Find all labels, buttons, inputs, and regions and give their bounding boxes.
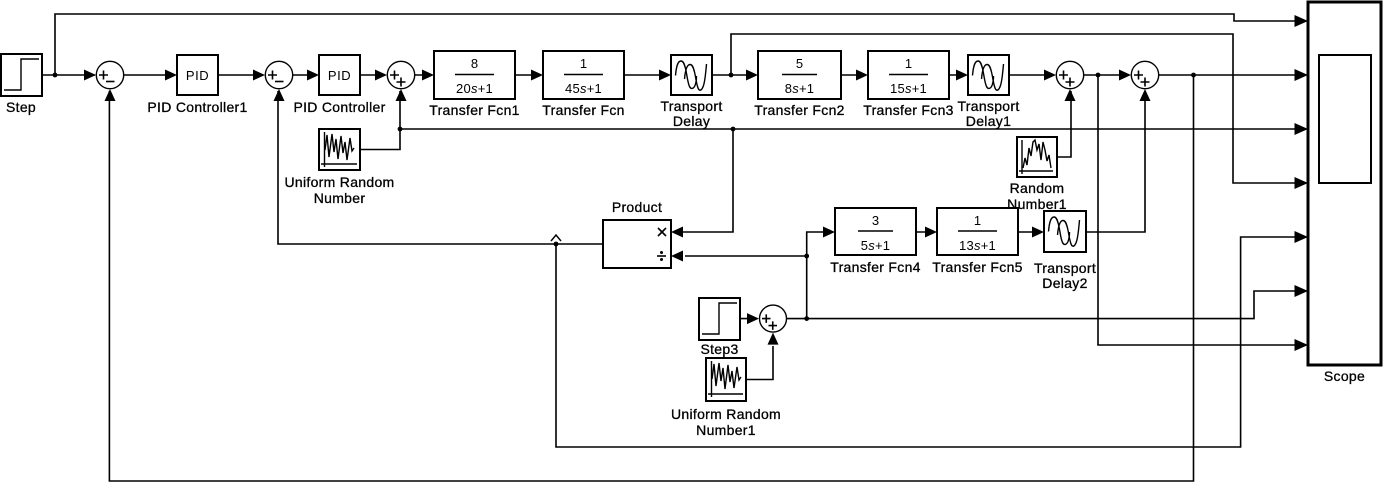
svg-text:Random: Random	[1010, 180, 1065, 196]
arrowhead into Sum1	[84, 70, 96, 81]
node: junction on Sum7 output	[804, 316, 809, 321]
arrowhead into Transport Delay1	[956, 70, 968, 81]
sign + of S1	[99, 71, 108, 80]
marker: chevron above junction	[551, 235, 561, 241]
svg-text:1: 1	[580, 56, 587, 71]
block: PID Controller	[319, 55, 360, 95]
arrowhead into Transfer Fcn2	[746, 70, 758, 81]
block: Uniform Random Number	[319, 129, 360, 170]
svg-text:Transfer Fcn: Transfer Fcn	[542, 102, 624, 118]
arrowhead into Transfer Fcn	[531, 70, 543, 81]
arrowhead into Product X input (pointing left)	[671, 227, 683, 238]
icon: step curve of Step3	[702, 303, 737, 334]
wire: Transfer Fcn1 to Transfer Fcn	[515, 74, 541, 76]
arrowhead into Sum2	[253, 70, 265, 81]
sum S7	[760, 305, 787, 332]
svg-text:3: 3	[872, 213, 879, 228]
arrowhead into Sum7 bottom (from Uniform Random Number1)	[768, 333, 779, 345]
svg-text:45s+1: 45s+1	[565, 81, 602, 96]
arrowhead into Sum6	[1119, 70, 1131, 81]
node: junction on URN line above Product	[731, 127, 736, 132]
svg-text:1: 1	[974, 213, 981, 228]
sign + left of S5	[1059, 71, 1068, 80]
block: Transport Delay2	[1044, 211, 1086, 252]
icon: scope screen	[1319, 55, 1371, 183]
sign + bottom of S6	[1141, 78, 1150, 87]
sign + bottom of S3	[397, 78, 406, 87]
arrowhead into Transfer Fcn4	[823, 227, 835, 238]
arrowhead into Transfer Fcn5	[925, 227, 937, 238]
block: Random Number1	[1017, 137, 1057, 177]
wire: Transport Delay1 to Sum5	[1009, 74, 1054, 76]
svg-text:Transfer Fcn4: Transfer Fcn4	[830, 259, 921, 275]
arrowhead into Transport Delay	[659, 70, 671, 81]
svg-text:PID Controller: PID Controller	[293, 99, 385, 115]
arrowhead into Transfer Fcn3	[856, 70, 868, 81]
svg-text:Transfer Fcn3: Transfer Fcn3	[863, 102, 954, 118]
sign - of S1	[106, 81, 115, 83]
arrowhead into Scope input 5	[1295, 231, 1309, 243]
node: junction on Transport Delay output	[729, 73, 734, 78]
node: junction after Sum5	[1096, 73, 1101, 78]
sign + bottom of S5	[1066, 78, 1075, 87]
svg-text:8s+1: 8s+1	[785, 81, 815, 96]
wire: URN line branch down to Product X input	[673, 129, 733, 232]
sum S3	[387, 61, 414, 88]
arrowhead into Sum5	[1044, 70, 1056, 81]
wire: Sum7 branch up to Transfer Fcn4	[807, 232, 833, 319]
wire: Step signal up and across top to Scope input 1	[55, 14, 1306, 75]
svg-text:Uniform Random: Uniform Random	[284, 174, 394, 190]
svg-text:1: 1	[905, 56, 912, 71]
arrowhead into Sum6 bottom (from Transport Delay2)	[1140, 89, 1151, 101]
wire: URN long line to Scope input 3	[400, 128, 1306, 130]
wire: Uniform Random Number output up to Sum3	[360, 91, 400, 150]
wire: Sum1 to PID Controller1	[124, 74, 175, 76]
svg-text:Delay1: Delay1	[966, 113, 1011, 129]
node: junction on Product output	[554, 242, 559, 247]
block: Uniform Random Number1	[706, 358, 746, 401]
sum S1	[96, 61, 123, 88]
svg-text:Transfer Fcn1: Transfer Fcn1	[429, 102, 520, 118]
block: Transfer Fcn	[543, 51, 624, 99]
node: junction after Sum6	[1191, 73, 1196, 78]
svg-text:Transport: Transport	[1034, 260, 1096, 276]
wire: Transport Delay branch up/right/down to Scope input 4	[731, 34, 1306, 183]
wire: Sum5 to Sum6	[1084, 74, 1129, 76]
arrowhead into PID Controller1	[165, 70, 177, 81]
arrowhead into Scope input 2	[1295, 69, 1309, 81]
block: Transfer Fcn1	[434, 51, 515, 99]
node: junction on URN riser	[398, 127, 403, 132]
svg-text:Transport: Transport	[660, 98, 722, 114]
sign + left of S7	[762, 314, 771, 323]
icon: noise waveform of Uniform Random Number	[325, 134, 354, 160]
icon: noise waveform of Uniform Random Number1	[712, 363, 741, 389]
svg-text:PID: PID	[328, 68, 351, 83]
wire: Product output left and up to Sum2	[278, 91, 603, 244]
arrowhead into PID Controller	[307, 70, 319, 81]
wire: PID Controller1 to Sum2	[218, 74, 263, 76]
svg-text:Transfer Fcn5: Transfer Fcn5	[932, 259, 1023, 275]
icon: delay1 waveform	[973, 61, 1004, 90]
block: Scope	[1308, 2, 1381, 365]
sign + left of S3	[390, 71, 399, 80]
svg-text:Transport: Transport	[957, 98, 1019, 114]
svg-text:Number: Number	[314, 190, 366, 206]
arrowhead into Scope input 6	[1295, 285, 1309, 297]
svg-text:Delay: Delay	[673, 113, 710, 129]
icon: delay waveform	[676, 61, 707, 90]
svg-text:PID: PID	[186, 68, 209, 83]
wire: Transfer Fcn5 to Transport Delay2	[1018, 231, 1042, 233]
wire: Transport Delay2 output up to Sum6	[1086, 91, 1145, 232]
block: Transfer Fcn2	[758, 51, 841, 99]
icon: axes of Random Number1	[1019, 140, 1053, 174]
svg-text:Uniform Random: Uniform Random	[671, 406, 781, 422]
svg-text:Number1: Number1	[696, 422, 756, 438]
svg-text:Transfer Fcn2: Transfer Fcn2	[754, 102, 845, 118]
wire: Transfer Fcn3 to Transport Delay1	[949, 74, 966, 76]
block: PID Controller1	[177, 55, 218, 95]
block: Transfer Fcn3	[868, 51, 949, 99]
node: junction on riser at divide branch	[804, 254, 809, 259]
sign + of S2	[268, 71, 277, 80]
arrowhead into Scope input 3	[1295, 123, 1309, 135]
arrowhead into Sum2 bottom (feedback from Product)	[274, 89, 285, 101]
wire: PID Controller to Sum3	[360, 74, 385, 76]
svg-text:Product: Product	[612, 199, 662, 215]
wire: Sum7 output right to corner up to Scope input 6	[786, 291, 1306, 319]
svg-text:Step3: Step3	[700, 341, 738, 357]
block: Transfer Fcn4	[835, 208, 916, 255]
svg-text:13s+1: 13s+1	[959, 238, 996, 253]
block: Step3	[699, 298, 740, 340]
block: Transport Delay	[671, 55, 712, 95]
svg-text:Delay2: Delay2	[1042, 275, 1087, 291]
node: junction on Step output	[53, 73, 58, 78]
sign X of Product	[658, 228, 666, 236]
svg-text:5: 5	[796, 56, 803, 71]
block: Transfer Fcn5	[937, 208, 1018, 255]
arrowhead into Sum3	[375, 70, 387, 81]
wire: Transfer Fcn2 to Transfer Fcn3	[841, 74, 866, 76]
arrowhead into Scope input 1	[1295, 15, 1309, 27]
icon: axes of Uniform Random Number	[321, 132, 357, 167]
wire: Sum6 output to Scope input 2	[1159, 74, 1306, 76]
arrowhead into Scope input 7	[1295, 339, 1309, 351]
arrowhead into Transport Delay2	[1032, 227, 1044, 238]
wire: branch left into Product divide input	[685, 255, 807, 257]
block: Transport Delay1	[968, 55, 1009, 95]
icon: delay2 waveform	[1049, 217, 1080, 246]
sum S2	[265, 61, 292, 88]
wire: Step3 to Sum7	[740, 318, 757, 320]
wire: Transfer Fcn to Transport Delay	[624, 74, 669, 76]
arrowhead into Sum7	[747, 313, 759, 324]
sign + left of S6	[1134, 71, 1143, 80]
arrowhead into Scope input 4	[1295, 177, 1309, 189]
wire: Sum5 branch down to Scope input 7	[1098, 75, 1306, 345]
arrowhead into Sum5 bottom (from Random Number1)	[1065, 89, 1076, 101]
arrowhead into Product divide input (pointing left)	[671, 251, 683, 262]
block: Product (mirrored)	[603, 220, 671, 268]
block: Step	[1, 54, 42, 96]
wire: Transport Delay output to Transfer Fcn2	[712, 74, 756, 76]
wire: feedback from Sum6 junction down across bottom to Sum1	[109, 75, 1193, 481]
icon: noise waveform of Random Number1	[1023, 140, 1051, 168]
wire: Transfer Fcn4 to Transfer Fcn5	[916, 231, 935, 233]
svg-text:20s+1: 20s+1	[456, 81, 493, 96]
svg-text:15s+1: 15s+1	[890, 81, 927, 96]
icon: step curve of Step	[4, 59, 39, 90]
svg-text:PID Controller1: PID Controller1	[147, 99, 247, 115]
arrowhead into Sum1 bottom (feedback)	[105, 89, 116, 101]
wire: Step output to Sum1	[42, 74, 95, 76]
sum S6	[1131, 61, 1158, 88]
arrowhead into Sum3 bottom (from Uniform Random Number)	[396, 89, 407, 101]
sign divide of Product	[657, 255, 666, 257]
wire: Random Number1 output up to Sum5	[1057, 91, 1071, 157]
wire: Uniform Random Number1 output up to Sum7	[746, 346, 773, 380]
sign + bottom of S7	[769, 321, 778, 330]
wire: Product output branch down across bottom up to Scope input 5	[556, 237, 1306, 447]
svg-text:Step: Step	[6, 99, 36, 115]
wire: Sum2 to PID Controller	[293, 74, 317, 76]
arrowhead into Transfer Fcn1	[422, 70, 434, 81]
sign - of S2	[275, 81, 284, 83]
icon: axes of Uniform Random Number1	[708, 361, 743, 397]
svg-text:5s+1: 5s+1	[861, 238, 891, 253]
wire: Sum3 to Transfer Fcn1	[415, 74, 432, 76]
svg-text:Scope: Scope	[1324, 368, 1365, 384]
sum S5	[1056, 61, 1083, 88]
svg-text:8: 8	[471, 56, 478, 71]
